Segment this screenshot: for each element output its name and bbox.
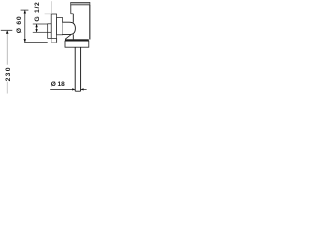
dim Ø18 right tail [81,88,87,90]
dim 230 extension line [1,29,13,31]
locknut bottom edge [51,42,56,44]
body right edge [89,5,91,40]
dim 230 line lower [6,82,8,94]
locknut right edge [56,39,58,43]
locknut left edge [50,39,52,43]
dim Ø60 top arrow [24,10,26,14]
body left edge lower [72,14,74,23]
push-button dome [63,22,76,34]
flush pipe right wall [80,47,82,91]
body step [71,13,74,15]
dim 230 arrow [6,30,9,34]
dim Ø60 line [24,10,26,42]
dim G1/2 top arrow [35,24,37,27]
svg-text:Ø 18: Ø 18 [51,81,65,88]
pipe outlet end [75,90,80,92]
dim G1/2 line [36,24,38,32]
inlet stub lower left edge [47,32,49,38]
escutcheon extension line [45,13,52,15]
dim Ø18 left tail [50,88,75,90]
button escutcheon [51,14,56,39]
svg-text:Ø 60: Ø 60 [16,16,23,34]
button ring [57,18,63,35]
dim Ø60 top extension line [21,9,29,11]
body left edge below button [72,34,74,39]
dim 230 line upper [6,30,8,65]
wall extension line [50,1,52,14]
flush pipe left wall [74,47,76,91]
top union nut [71,2,90,5]
body left edge upper [70,5,72,14]
svg-text:230: 230 [5,66,12,81]
outlet flange band [65,39,89,41]
dim G1/2 bottom arrow [35,29,37,32]
funnel diagonal [65,35,71,40]
dim Ø18 left arrow [72,88,75,90]
escutcheon bottom left extension [48,38,52,40]
dim G1/2 top extension line [33,23,48,25]
dim Ø18 right arrow [81,88,84,90]
svg-text:G 1/2: G 1/2 [34,1,41,21]
dim Ø60 bottom arrow [24,39,26,43]
outlet nut [65,41,89,47]
dim Ø60 bottom extension line [24,42,48,44]
dim G1/2 bottom extension line [33,31,48,33]
inlet thread stub G1/2 [48,24,52,33]
